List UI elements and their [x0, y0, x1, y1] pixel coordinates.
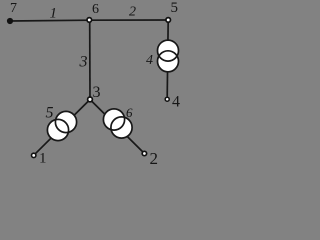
transformer 5	[47, 111, 76, 140]
wire 7-6 (branch 1)	[10, 19, 90, 22]
wire 3-1 (branch 5)	[34, 100, 90, 156]
svg-text:4: 4	[146, 53, 153, 68]
svg-text:2: 2	[129, 5, 136, 20]
node 1	[32, 153, 36, 157]
svg-text:4: 4	[172, 94, 180, 111]
transformer 4	[158, 40, 179, 72]
node 5	[166, 18, 171, 23]
node 4	[165, 97, 169, 101]
svg-text:6: 6	[92, 2, 99, 17]
svg-text:6: 6	[126, 105, 133, 120]
svg-text:1: 1	[50, 6, 58, 22]
node 3	[88, 97, 93, 102]
wire 5-4 (branch 4)	[167, 20, 168, 97]
svg-text:2: 2	[150, 149, 159, 168]
svg-text:3: 3	[79, 54, 88, 71]
node 2	[142, 151, 146, 155]
wire 3-2 (branch 6)	[90, 100, 144, 154]
transformer 6	[103, 109, 132, 138]
wire 6-3 (branch 3)	[89, 20, 91, 99]
svg-text:3: 3	[93, 84, 101, 101]
svg-text:7: 7	[10, 1, 17, 16]
wire 6-5 (branch 2)	[90, 19, 169, 21]
node 7 (source dot)	[7, 18, 13, 24]
svg-text:5: 5	[46, 105, 54, 122]
node 6	[87, 18, 92, 23]
svg-text:5: 5	[171, 0, 179, 16]
svg-text:1: 1	[39, 151, 47, 167]
